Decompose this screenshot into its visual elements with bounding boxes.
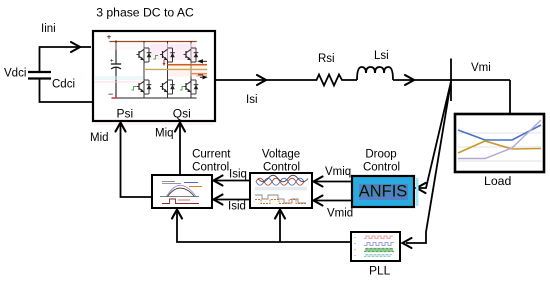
gate signal marks green	[132, 56, 185, 91]
bus bar Vmi	[450, 59, 452, 102]
wire to load	[509, 80, 511, 114]
wire Iini top horizontal with arrow	[40, 47, 92, 72]
wire Isid	[214, 199, 250, 201]
wire PLL to controls	[177, 211, 351, 242]
transistor Q3 top leg2	[160, 48, 175, 62]
svg-text:+: +	[107, 32, 112, 42]
inverter box 3 phase DC to AC	[93, 31, 215, 121]
transistor Q6 bottom leg2	[160, 80, 175, 94]
svg-text:~: ~	[354, 242, 356, 246]
svg-text:Voltage: Voltage	[262, 149, 300, 161]
dc-link capacitor	[115, 41, 117, 64]
load chart orange line	[458, 141, 541, 153]
svg-text:3 phase DC to AC: 3 phase DC to AC	[96, 6, 194, 20]
svg-text:Iini: Iini	[41, 23, 56, 35]
DC+ rail	[110, 41, 196, 43]
tint bands (artifacts)	[150, 44, 196, 60]
wire Lsi to bus	[393, 79, 510, 81]
inductor Lsi	[357, 67, 393, 80]
vc scope content	[255, 175, 308, 203]
DC- rail	[112, 97, 196, 99]
leg 3 vertical	[190, 41, 192, 98]
cc scope content	[160, 182, 202, 204]
svg-text:~: ~	[354, 254, 356, 258]
load chart blue line	[458, 125, 541, 140]
wire Mid: from current control left up into inverter	[121, 124, 153, 197]
svg-text:Control: Control	[192, 162, 229, 174]
svg-text:Isiq: Isiq	[229, 169, 247, 181]
pink artifact band under box	[94, 123, 214, 125]
svg-text:Load: Load	[484, 174, 512, 188]
transistor Q2 bottom leg3	[184, 80, 199, 94]
load chart purple line	[458, 120, 541, 159]
load box	[455, 114, 544, 172]
svg-text:PLL: PLL	[369, 264, 391, 278]
resistor Rsi	[314, 75, 357, 86]
svg-text:~: ~	[354, 236, 356, 240]
wire Vmid	[314, 200, 352, 202]
svg-text:~: ~	[354, 248, 356, 252]
svg-text:Vmi: Vmi	[471, 62, 491, 74]
svg-text:Qsi: Qsi	[173, 106, 191, 120]
svg-text:ANFIS: ANFIS	[359, 183, 408, 201]
wire branch to voltage control	[279, 211, 281, 242]
pll waveforms	[354, 236, 394, 258]
svg-text:Control: Control	[263, 162, 300, 174]
diagonal wire bus to ANFIS	[419, 82, 451, 189]
svg-text:Control: Control	[363, 162, 400, 174]
phase output lines	[168, 64, 208, 66]
svg-text:Vmid: Vmid	[327, 208, 353, 220]
diagonal wire bus to PLL	[406, 82, 451, 244]
wire Vmiq	[314, 181, 352, 183]
leg 2 vertical	[167, 41, 169, 98]
wire bottom from capacitor to inverter	[40, 79, 94, 103]
svg-text:Miq: Miq	[155, 127, 174, 139]
wire Miq: from current control top up into inverter	[179, 124, 181, 175]
svg-text:Vmiq: Vmiq	[325, 166, 351, 178]
inverter internals	[107, 32, 197, 100]
capacitor Cdci	[28, 71, 51, 73]
wire Isi output of inverter	[215, 79, 314, 81]
leg 1 vertical	[143, 41, 145, 98]
red gate mark	[163, 60, 165, 64]
svg-text:Cdci: Cdci	[52, 79, 75, 91]
svg-text:+: +	[110, 59, 114, 65]
transistor Q1 top leg1	[137, 48, 152, 62]
svg-text:Isid: Isid	[228, 201, 246, 213]
svg-text:Mid: Mid	[90, 132, 109, 144]
PLL block	[351, 232, 400, 261]
transistor Q4 bottom leg1	[137, 80, 152, 94]
svg-text:Rsi: Rsi	[318, 53, 335, 65]
svg-text:Droop: Droop	[365, 149, 396, 161]
svg-text:Lsi: Lsi	[374, 50, 389, 62]
svg-text:Vdci: Vdci	[4, 68, 26, 80]
svg-text:Isi: Isi	[246, 94, 258, 106]
svg-text:Current: Current	[192, 149, 231, 161]
wire Isiq	[214, 180, 250, 182]
small measure arrows right side	[198, 60, 207, 79]
svg-text:Psi: Psi	[117, 106, 134, 120]
transistor legs (3 half-bridges)	[144, 41, 191, 98]
transistor Q5 top leg3	[184, 48, 199, 62]
